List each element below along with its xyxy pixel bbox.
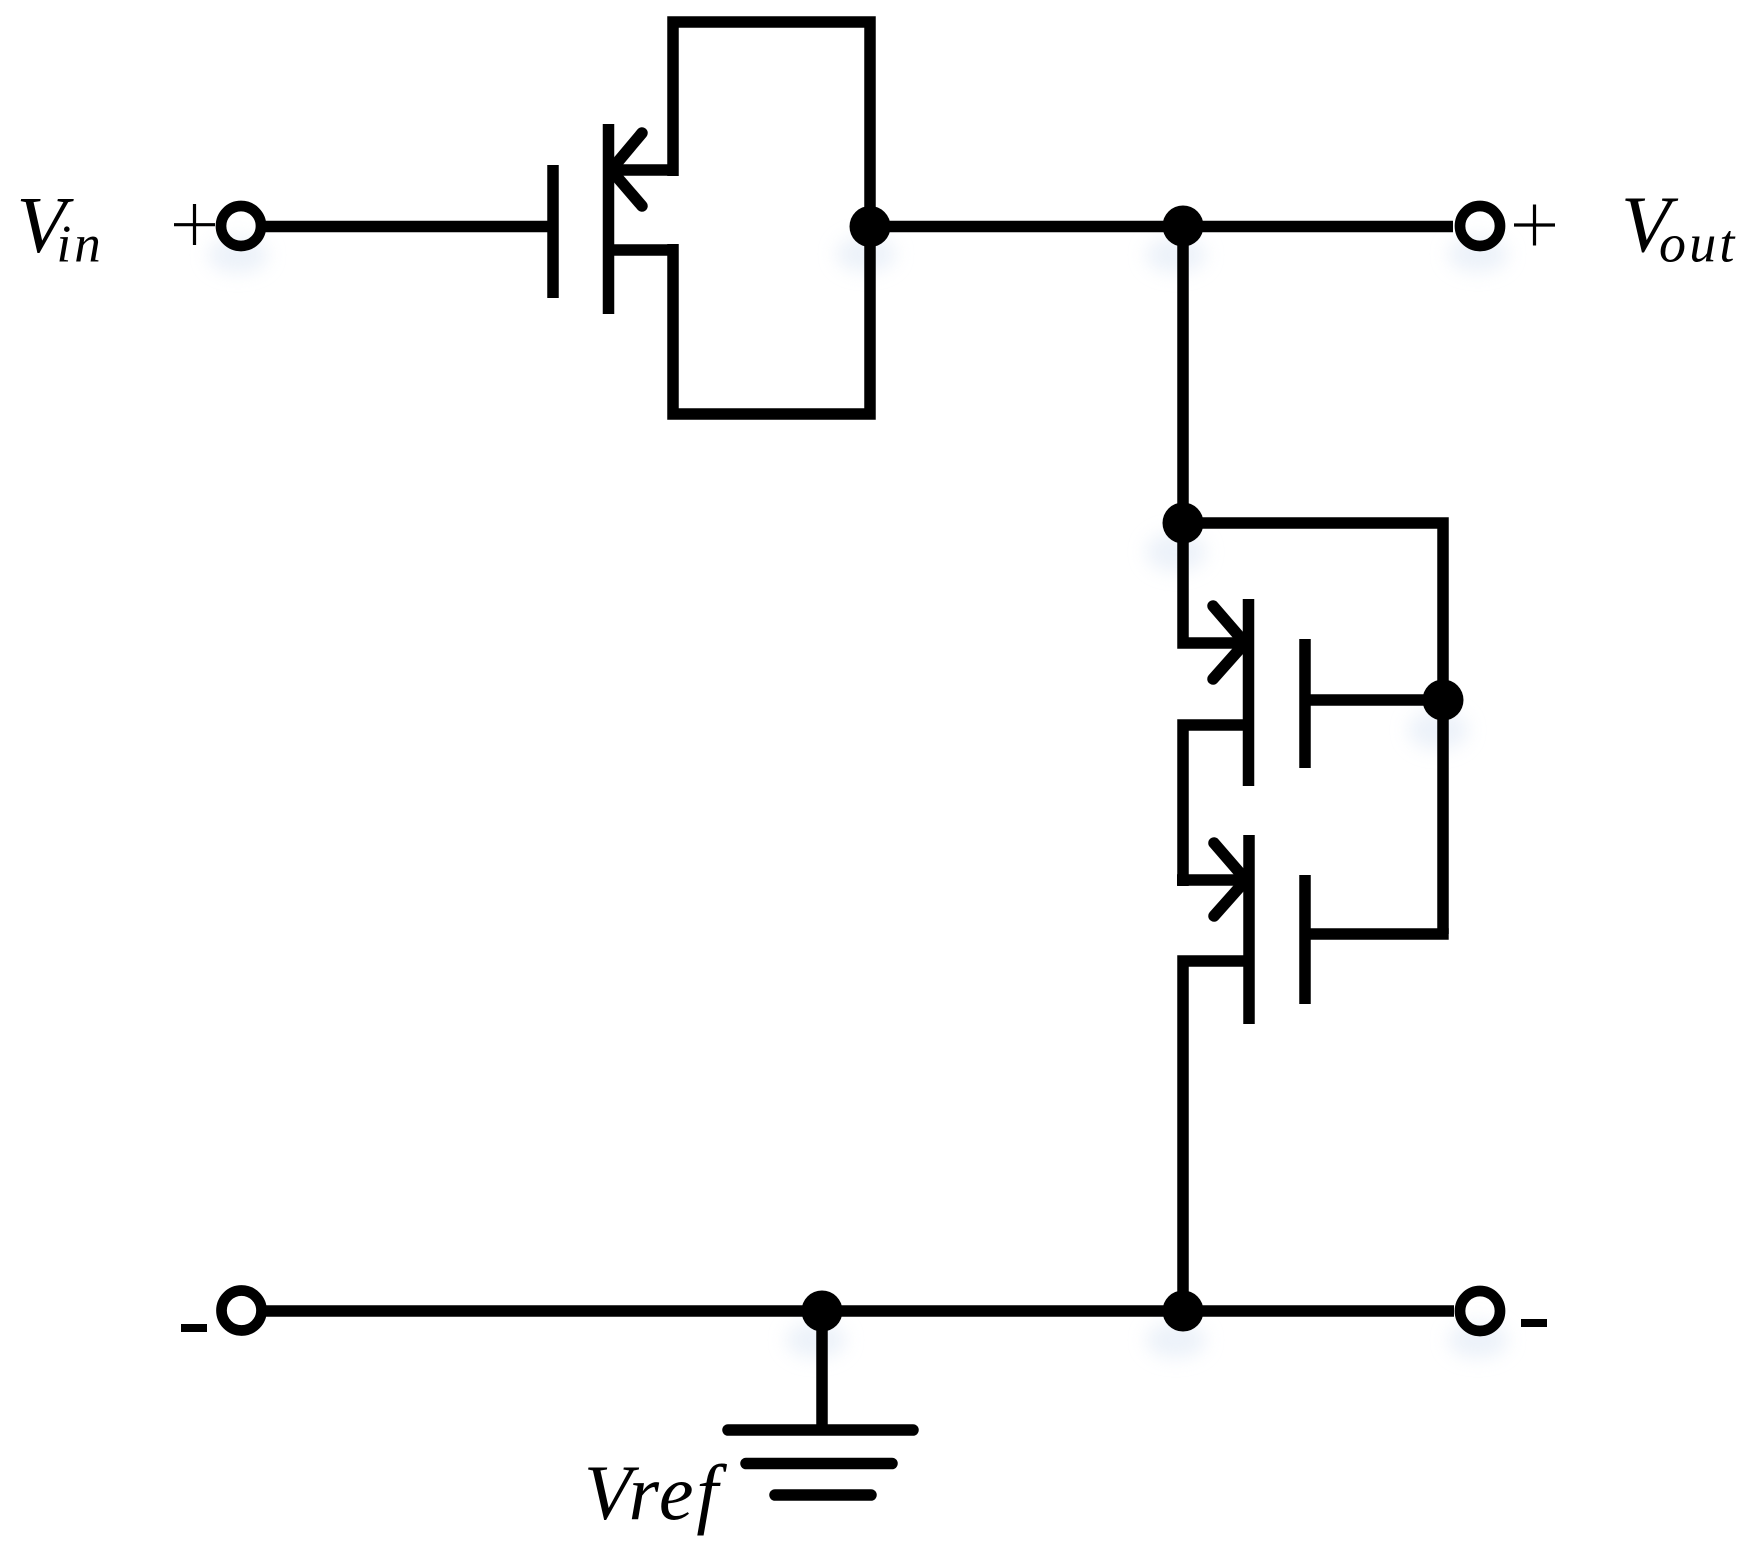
transistor M3 drain lead — [1177, 874, 1249, 886]
transistor M3 source lead — [1183, 961, 1249, 1311]
node B (Vout branch junction) — [1163, 206, 1204, 247]
shadow artifacts — [208, 236, 1508, 1358]
transistor M2 gate lead — [1305, 694, 1443, 706]
wire node B to Vout port — [1183, 221, 1453, 233]
output port circle (Vout terminal) — [1460, 206, 1500, 246]
transistor M2 arrow — [1213, 606, 1245, 679]
transistor M1 arrow — [611, 133, 642, 206]
transistor M1 drain lead — [608, 244, 673, 256]
ground bar 3 — [775, 1489, 871, 1501]
bottom rail wire — [266, 1305, 1454, 1317]
transistor M1 gate bar — [547, 165, 559, 298]
node E (Vref/ground junction) — [802, 1291, 843, 1332]
bottom-left port circle — [222, 1291, 262, 1331]
node C (drain of M2 junction) — [1163, 503, 1204, 544]
wire M1 source/drain loop — [673, 22, 870, 414]
transistor M3 arrow — [1214, 843, 1246, 916]
wire node A to node B — [870, 221, 1183, 233]
transistor M2 gate bar — [1299, 639, 1311, 768]
wire Vin to gate of M1 — [265, 221, 550, 233]
node F (M3 source to rail junction) — [1163, 1291, 1204, 1332]
node D (M2 gate junction) — [1423, 680, 1464, 721]
transistor M2 drain lead — [1183, 517, 1248, 643]
input port circle (Vin terminal) — [221, 206, 261, 246]
svg-text:in: in — [57, 216, 104, 274]
minus marker (bottom right, -) — [1521, 1319, 1547, 1327]
transistor M1 source lead — [608, 164, 673, 176]
plus marker (input, +) — [174, 204, 215, 245]
minus marker (bottom left, -) — [181, 1324, 207, 1332]
svg-text:Vref: Vref — [584, 1449, 727, 1536]
bottom-right port circle — [1460, 1291, 1500, 1331]
ground stub wire — [816, 1311, 828, 1430]
transistor M3 gate bar — [1299, 875, 1311, 1004]
transistor M3 gate lead — [1305, 928, 1449, 940]
transistor M2 source lead — [1183, 725, 1248, 886]
wire node B down to node C — [1177, 226, 1189, 523]
plus marker (output, +) — [1514, 205, 1555, 246]
ground bar 2 — [746, 1458, 892, 1470]
wire node C to gate column — [1183, 523, 1443, 934]
node A (M1 output junction) — [850, 206, 891, 247]
transistor M1 channel — [603, 124, 615, 314]
transistor M3 channel — [1243, 835, 1255, 1024]
svg-text:out: out — [1659, 214, 1738, 274]
label Vin — [17, 180, 104, 274]
transistor M2 channel — [1243, 599, 1255, 786]
ground bar 1 — [728, 1424, 913, 1436]
label Vout — [1621, 180, 1738, 274]
